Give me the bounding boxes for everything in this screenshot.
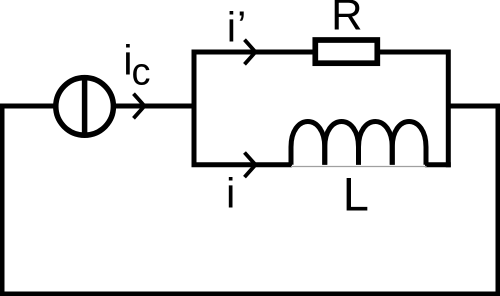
svg-text:R: R [331, 0, 362, 39]
svg-text:c: c [132, 51, 151, 93]
svg-text:i: i [226, 170, 235, 217]
svg-text:i’: i’ [227, 2, 247, 51]
svg-text:L: L [343, 168, 369, 221]
